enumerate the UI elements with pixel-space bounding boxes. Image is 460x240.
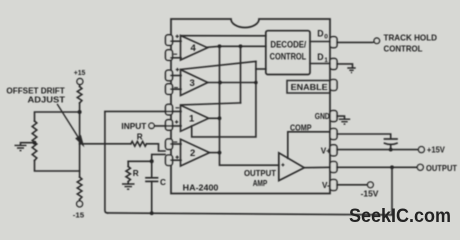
svg-text:V+: V+	[321, 147, 331, 156]
svg-text:+15V: +15V	[427, 146, 445, 155]
svg-text:+15: +15	[74, 68, 86, 77]
svg-text:R: R	[137, 133, 143, 142]
svg-text:HA-2400: HA-2400	[183, 183, 219, 192]
svg-text:D: D	[317, 52, 323, 62]
svg-text:3: 3	[190, 78, 195, 89]
svg-text:-15V: -15V	[361, 190, 379, 199]
svg-text:ENABLE: ENABLE	[291, 82, 328, 92]
svg-text:OFFSET DRIFT: OFFSET DRIFT	[6, 87, 64, 96]
svg-text:OUTPUT: OUTPUT	[426, 164, 457, 173]
svg-text:4: 4	[191, 43, 197, 54]
svg-text:COMP: COMP	[290, 124, 312, 133]
svg-text:GND: GND	[315, 112, 330, 121]
svg-text:SeekIC.com: SeekIC.com	[349, 206, 451, 227]
svg-text:DECODE/: DECODE/	[270, 39, 306, 49]
svg-text:1: 1	[324, 57, 328, 64]
svg-text:INPUT: INPUT	[121, 122, 146, 131]
svg-text:D: D	[317, 28, 323, 38]
svg-text:ADJUST: ADJUST	[28, 96, 66, 105]
svg-text:AMP: AMP	[253, 179, 268, 188]
svg-text:R: R	[133, 169, 139, 178]
svg-text:CONTROL: CONTROL	[270, 51, 307, 61]
svg-text:0: 0	[324, 33, 328, 40]
svg-text:CONTROL: CONTROL	[384, 44, 423, 53]
svg-text:TRACK HOLD: TRACK HOLD	[384, 34, 438, 43]
svg-text:1: 1	[189, 113, 195, 124]
svg-text:2: 2	[190, 148, 195, 159]
svg-text:V-: V-	[322, 181, 330, 190]
svg-text:-15: -15	[73, 211, 84, 220]
svg-text:C: C	[160, 178, 166, 187]
svg-text:OUTPUT: OUTPUT	[244, 169, 276, 178]
